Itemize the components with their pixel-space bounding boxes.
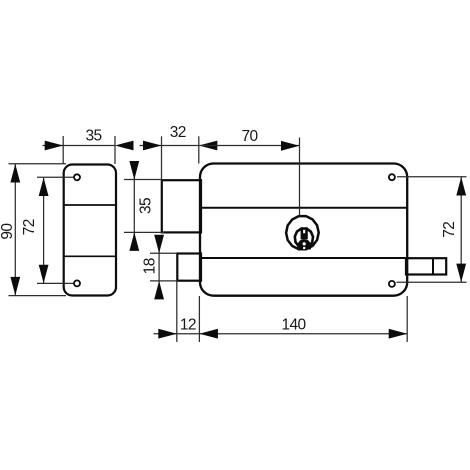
svg-text:32: 32 — [170, 124, 186, 141]
key head slot — [303, 247, 305, 249]
dim 90 left: top arrow — [10, 164, 20, 183]
deadbolt tip line — [432, 258, 434, 274]
dim 72 left: bottom arrow — [39, 265, 49, 284]
dim 35 top: extension line left — [62, 136, 64, 164]
dim 35 top: left arrow — [45, 141, 64, 151]
key head in cylinder — [297, 227, 311, 249]
dim 140 bottom: dimension line — [199, 333, 407, 335]
faceplate upper box (35 mm) — [162, 180, 201, 232]
dim 72 left: dimension line — [43, 177, 45, 283]
dim 35 vertical: dimension line — [133, 161, 135, 250]
dim 12 bottom: left arrow — [158, 329, 177, 339]
dim 35 top: extension line right — [114, 136, 116, 164]
dim 140 bottom: extension line right — [406, 296, 408, 342]
dim 72 right: bottom arrow — [456, 264, 466, 283]
svg-text:72: 72 — [21, 219, 38, 235]
strike plate fold line 1 — [64, 204, 116, 206]
dim 35 top: right arrow — [115, 141, 134, 151]
dim 18: extension line top — [150, 252, 177, 254]
dim 12 bottom: extension line right — [198, 296, 200, 342]
dim 32 top: extension line left — [161, 136, 163, 180]
lock body screw hole top right — [389, 174, 395, 180]
dim 90 left: extension line bottom — [9, 295, 67, 297]
dim 72 left: top arrow — [39, 178, 49, 197]
dim 32 top: left arrow — [143, 141, 162, 151]
dim 18: extension line bottom — [150, 280, 177, 282]
dim 35 vertical: extension line bottom — [124, 231, 164, 233]
cylinder inner ring — [295, 229, 313, 248]
svg-text:90: 90 — [0, 223, 16, 240]
dim 35 vertical: extension line top — [124, 179, 162, 181]
dim 72 right: extension line top — [397, 176, 467, 178]
svg-text:35: 35 — [138, 198, 155, 214]
dim 32 top: dimension line — [140, 145, 199, 147]
dim 12 bottom: dimension line — [154, 333, 200, 335]
strike plate outline — [64, 165, 116, 296]
strike plate fold line 2 — [64, 255, 116, 257]
dim 18: bottom arrow — [154, 281, 164, 300]
dim 140 bottom: right arrow — [389, 329, 408, 339]
dim 70 top: dimension line — [199, 145, 300, 147]
dim 72 right: extension line bottom — [397, 281, 467, 283]
key head hole — [303, 242, 306, 245]
svg-text:12: 12 — [180, 317, 196, 334]
dim 90 left: bottom arrow — [10, 277, 20, 296]
dim 72 left: extension line top — [37, 176, 73, 178]
dim 32 top: extension line right — [198, 136, 200, 163]
dim 12 bottom: extension line left — [176, 281, 178, 342]
dim 90 left: extension line top — [9, 163, 67, 165]
dim 35 vertical: bottom arrow — [129, 232, 139, 251]
lock body seam line 2 — [200, 257, 407, 259]
svg-text:35: 35 — [85, 128, 101, 145]
svg-text:72: 72 — [441, 222, 458, 238]
dim 72 right: top arrow — [456, 177, 466, 196]
svg-text:140: 140 — [281, 317, 306, 334]
cylinder outer ring — [286, 216, 319, 249]
lock body outline — [200, 164, 407, 296]
dim 72 left: extension line bottom — [37, 282, 73, 284]
lock body screw hole bottom right — [389, 281, 395, 287]
faceplate lower box (18 mm) — [177, 254, 201, 281]
strike plate screw hole top — [74, 174, 80, 180]
dim 35 vertical: top arrow — [129, 161, 139, 180]
dim 90 left: dimension line — [14, 164, 16, 296]
dim 32 top: right arrow (shared with dim 70) — [199, 141, 218, 151]
svg-text:18: 18 — [141, 258, 158, 274]
dim 140 bottom: left arrow — [199, 329, 218, 339]
lock body seam line 1 — [200, 207, 407, 209]
dim 72 right: dimension line — [460, 177, 462, 282]
strike plate screw hole bottom — [74, 280, 80, 286]
dim 18: top arrow — [154, 235, 164, 254]
svg-text:70: 70 — [241, 128, 258, 145]
dim 70 top: right arrow — [281, 141, 300, 151]
deadbolt — [406, 258, 446, 274]
dim 18: dimension line — [158, 236, 160, 299]
cylinder centre line — [299, 138, 301, 216]
dim 35 top: dimension line — [43, 145, 116, 147]
